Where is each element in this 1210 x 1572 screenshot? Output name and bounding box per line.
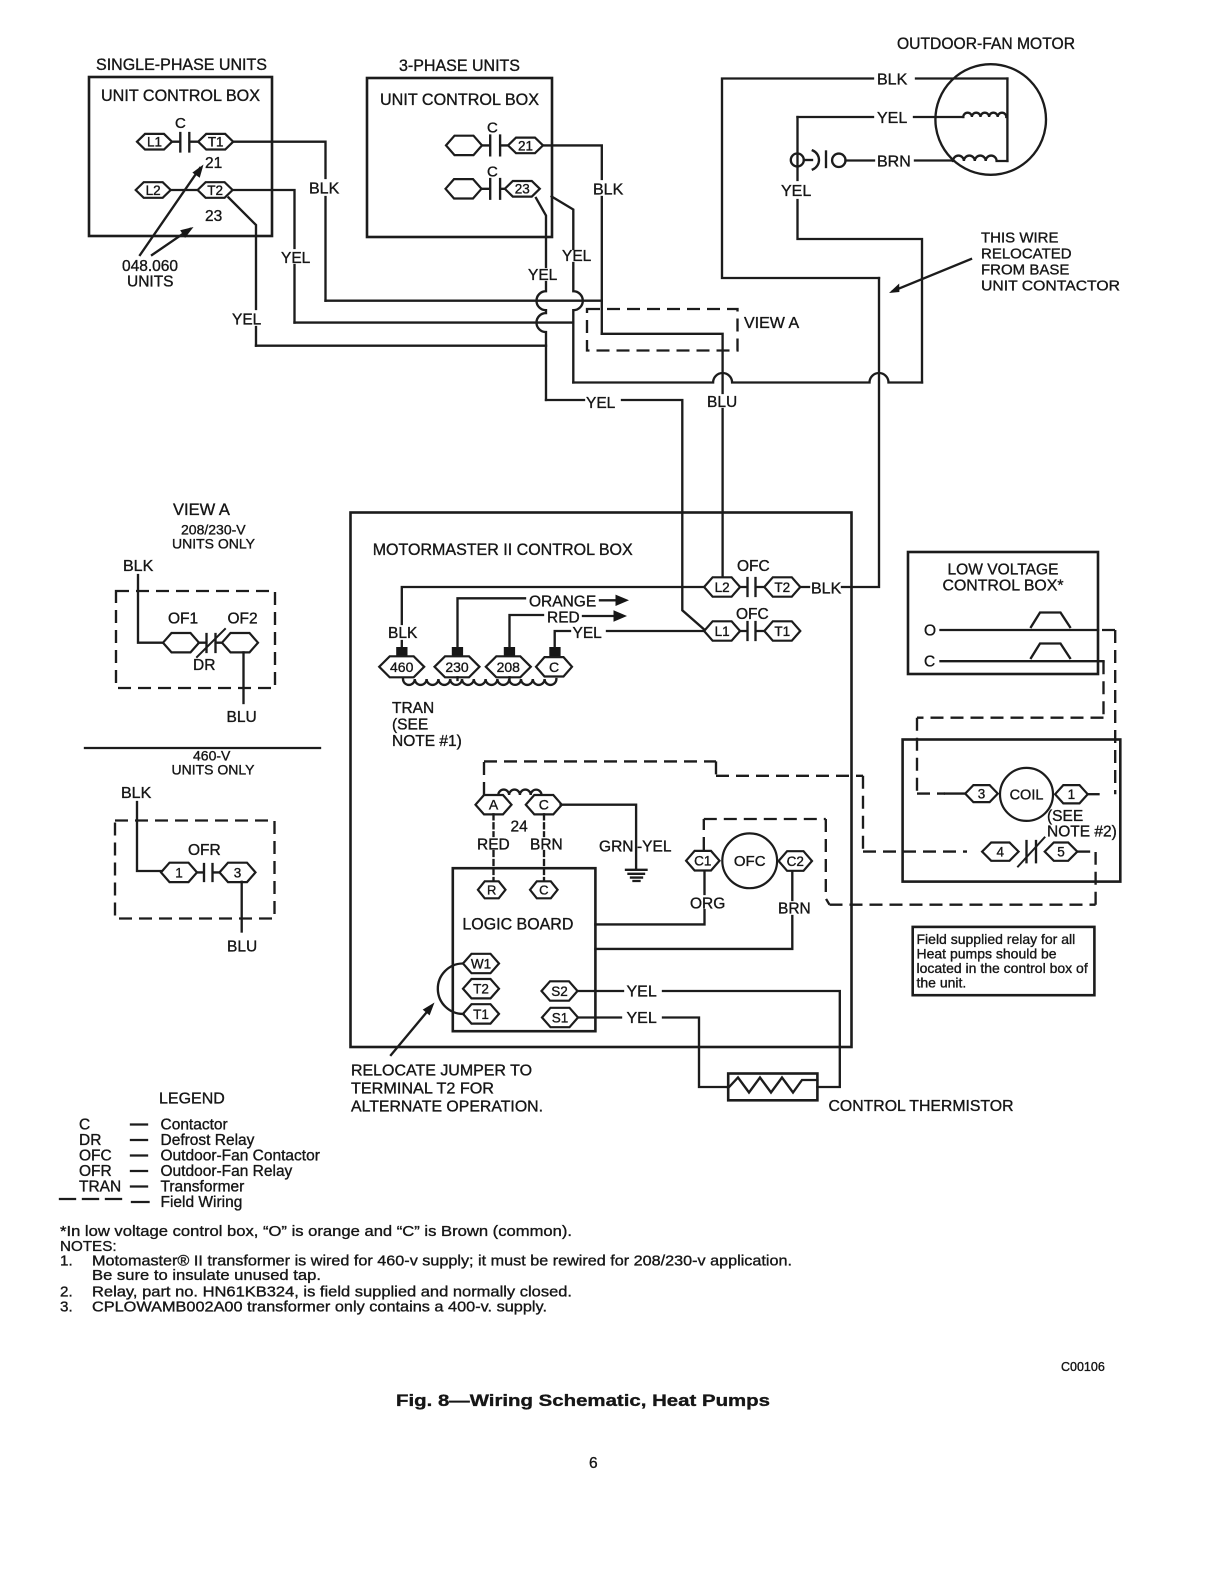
outdoor-fan motor circle: [935, 64, 1046, 175]
terminal L1 (OFC): [704, 621, 740, 640]
logic board box: [453, 868, 596, 1031]
wire BLK relocated drop to OFC T2: [799, 278, 880, 587]
svg-text:ORANGE: ORANGE: [529, 594, 596, 611]
svg-text:Fig. 8—Wiring Schematic, Heat: Fig. 8—Wiring Schematic, Heat Pumps: [396, 1391, 770, 1410]
terminal C2 (OFC coil): [779, 851, 812, 871]
jumper W1 to T1: [438, 964, 464, 1014]
wire RED A to R: [492, 814, 494, 881]
this wire relocated note: [981, 230, 1120, 295]
svg-text:6: 6: [589, 1455, 598, 1472]
field supplied relay box: [903, 740, 1121, 882]
wire ORG C1 to logic board: [595, 870, 704, 925]
svg-text:C1: C1: [694, 854, 711, 869]
svg-text:LOGIC BOARD: LOGIC BOARD: [462, 916, 573, 934]
svg-text:(SEE: (SEE: [392, 717, 428, 734]
terminal C (24v): [526, 795, 562, 814]
wire stub from terminal 5: [1077, 850, 1089, 852]
svg-text:BLK: BLK: [811, 581, 842, 598]
transformer TRAN primary winding: [403, 679, 556, 685]
blank terminal row2: [446, 179, 482, 198]
svg-text:T1: T1: [774, 624, 790, 639]
svg-text:OFC: OFC: [736, 606, 769, 623]
low voltage control box: [908, 552, 1098, 674]
wire BLU drop from 3-phase BLK riser to motormaster L2: [602, 334, 723, 578]
motormaster II control box: [351, 513, 852, 1048]
wire BLK to motor: [722, 79, 1007, 279]
svg-text:*In low voltage control box, “: *In low voltage control box, “O” is oran…: [60, 1223, 572, 1240]
terminal T1: [198, 134, 233, 150]
svg-text:ALTERNATE OPERATION.: ALTERNATE OPERATION.: [351, 1099, 543, 1116]
wire stub to terminal 3: [945, 792, 965, 794]
svg-text:RED: RED: [477, 837, 510, 854]
wire H1 BLK interconnect: [326, 300, 602, 302]
svg-text:UNIT CONTACTOR: UNIT CONTACTOR: [981, 278, 1120, 295]
RED arrow: [583, 610, 627, 621]
svg-text:C: C: [924, 654, 935, 671]
wire YEL from plug down to H4: [798, 117, 923, 383]
OFC contacts row2: [740, 622, 764, 640]
GRN-YEL label: [599, 839, 672, 856]
svg-text:VIEW A: VIEW A: [173, 501, 230, 519]
svg-text:GRN: GRN: [599, 839, 633, 856]
svg-text:OUTDOOR-FAN MOTOR: OUTDOOR-FAN MOTOR: [897, 35, 1075, 53]
terminal 208: [486, 656, 531, 677]
wire BLK transformer 460 tap to L2: [402, 587, 706, 648]
svg-text:L1: L1: [715, 624, 730, 639]
svg-text:YEL: YEL: [562, 248, 592, 265]
terminal W1: [463, 954, 499, 973]
svg-text:21: 21: [518, 138, 533, 153]
TRAN note: [392, 700, 462, 750]
svg-text:C: C: [487, 120, 498, 137]
svg-text:the unit.: the unit.: [917, 975, 967, 991]
terminal 1 (OFR): [161, 863, 197, 882]
svg-text:UNITS ONLY: UNITS ONLY: [172, 762, 256, 778]
svg-text:C00106: C00106: [1061, 1360, 1105, 1374]
svg-text:T1: T1: [473, 1007, 489, 1022]
terminal C (transformer): [536, 657, 572, 676]
low voltage control box label: [943, 562, 1064, 595]
svg-text:Field Wiring: Field Wiring: [161, 1194, 243, 1211]
svg-text:UNIT CONTROL BOX: UNIT CONTROL BOX: [380, 91, 539, 109]
svg-text:BLK: BLK: [309, 181, 340, 198]
svg-text:SINGLE-PHASE UNITS: SINGLE-PHASE UNITS: [96, 56, 267, 74]
svg-text:Defrost Relay: Defrost Relay: [161, 1132, 255, 1149]
svg-text:NOTE #1): NOTE #1): [392, 733, 462, 750]
svg-text:CONTROL BOX*: CONTROL BOX*: [943, 578, 1064, 595]
svg-text:L2: L2: [715, 580, 730, 595]
terminal T1 (logic board): [463, 1004, 499, 1023]
relay COIL: [1000, 768, 1053, 821]
svg-text:FROM BASE: FROM BASE: [981, 262, 1069, 279]
svg-text:OFC: OFC: [734, 853, 766, 870]
svg-text:3.: 3.: [60, 1299, 73, 1316]
defrost relay DR contacts (normally closed): [197, 629, 225, 657]
svg-text:TERMINAL T2 FOR: TERMINAL T2 FOR: [351, 1081, 494, 1098]
footnote and notes: [60, 1223, 792, 1316]
motor internal wire: [1006, 79, 1008, 162]
terminal A (24v): [476, 795, 512, 814]
svg-text:BLU: BLU: [227, 709, 257, 726]
svg-text:RELOCATED: RELOCATED: [981, 246, 1072, 263]
svg-text:BLU: BLU: [707, 394, 737, 411]
field wiring dashed from A terminal to relay contact 4: [484, 761, 967, 851]
callout arrow to 21: [140, 162, 207, 255]
terminal 230: [435, 656, 480, 677]
section divider: [85, 747, 320, 749]
field wiring sample: [60, 1198, 124, 1200]
svg-text:COIL: COIL: [1010, 788, 1044, 804]
svg-text:048.060: 048.060: [122, 258, 178, 275]
terminal S1: [542, 1008, 578, 1027]
terminal 460: [379, 656, 424, 677]
svg-text:S1: S1: [552, 1010, 569, 1025]
svg-text:CONTROL THERMISTOR: CONTROL THERMISTOR: [829, 1098, 1014, 1115]
svg-text:C: C: [539, 797, 549, 813]
svg-text:THIS WIRE: THIS WIRE: [981, 230, 1059, 247]
terminal OF2: [222, 633, 258, 652]
svg-text:BLK: BLK: [877, 72, 908, 89]
svg-text:RED: RED: [547, 610, 580, 627]
wire stub from terminal 1: [1088, 793, 1099, 795]
svg-text:TRAN: TRAN: [79, 1179, 121, 1196]
svg-text:BLK: BLK: [123, 558, 154, 575]
svg-text:(SEE: (SEE: [1047, 808, 1083, 825]
OFC contacts row1: [740, 578, 764, 596]
svg-text:4: 4: [997, 845, 1005, 860]
wire L2 to T2: [171, 189, 198, 191]
field wiring dashed to relay contact 5: [830, 852, 1096, 905]
svg-text:1.: 1.: [60, 1253, 73, 1270]
svg-text:YEL: YEL: [627, 1010, 657, 1027]
terminal T2 (OFC): [764, 577, 800, 596]
svg-text:UNIT CONTROL BOX: UNIT CONTROL BOX: [101, 87, 260, 105]
svg-text:Outdoor-Fan Contactor: Outdoor-Fan Contactor: [161, 1148, 320, 1165]
motor main winding: [963, 113, 1006, 117]
svg-text:1: 1: [1068, 787, 1076, 802]
svg-text:UNITS: UNITS: [127, 274, 174, 291]
wire YEL from S2 to thermistor: [577, 991, 839, 1087]
terminal OF1: [163, 633, 199, 652]
wire ORANGE from 230 tap: [458, 598, 526, 680]
svg-text:BRN: BRN: [877, 154, 911, 171]
svg-text:24: 24: [511, 819, 529, 836]
svg-text:YEL: YEL: [281, 250, 311, 267]
svg-text:460: 460: [390, 659, 414, 675]
arrow to jumper: [391, 1000, 438, 1055]
svg-text:OFC: OFC: [79, 1148, 112, 1165]
wire RED from 208 tap: [510, 615, 544, 680]
svg-text:L2: L2: [146, 183, 161, 198]
wire BRN C2 to logic board: [595, 871, 792, 949]
svg-text:VIEW A: VIEW A: [744, 315, 799, 332]
wire GRN-YEL from C to ground: [561, 805, 637, 869]
terminal 21 (3-phase): [508, 138, 543, 154]
C plug symbol: [1031, 644, 1070, 659]
svg-text:UNITS ONLY: UNITS ONLY: [172, 536, 256, 552]
OFR contacts: [197, 864, 220, 881]
svg-text:A: A: [489, 797, 499, 813]
legend entries: [79, 1117, 320, 1212]
svg-text:R: R: [487, 883, 496, 898]
svg-text:23: 23: [205, 208, 222, 225]
svg-text:T2: T2: [774, 580, 790, 595]
svg-text:C: C: [487, 164, 498, 181]
contactor C contacts row1: [482, 136, 508, 156]
svg-text:3: 3: [978, 787, 986, 802]
svg-text:YEL: YEL: [877, 110, 907, 127]
terminal 23 (3-phase): [505, 181, 540, 197]
ground symbol: [626, 870, 647, 881]
terminal T1 (OFC): [764, 621, 800, 640]
wire YEL from S1 to thermistor: [579, 1018, 729, 1088]
wire BLK from 3-phase 21: [544, 145, 602, 333]
terminal L2 (OFC): [704, 577, 740, 596]
terminal L1: [137, 134, 172, 150]
svg-text:3-PHASE UNITS: 3-PHASE UNITS: [399, 57, 520, 75]
svg-text:YEL: YEL: [627, 984, 657, 1001]
callout arrow to 23: [152, 223, 196, 255]
svg-text:C: C: [549, 659, 559, 675]
svg-text:L1: L1: [147, 135, 162, 150]
svg-text:YEL: YEL: [573, 625, 603, 642]
wire C: [941, 660, 1104, 662]
field wiring C to relay 3: [917, 661, 1104, 793]
wire YEL from 3-phase 23 bottom corner with hops over H1 H2: [536, 198, 546, 400]
terminal 1 (relay): [1055, 785, 1088, 803]
svg-text:RELOCATE JUMPER TO: RELOCATE JUMPER TO: [351, 1063, 532, 1080]
svg-text:LEGEND: LEGEND: [159, 1091, 225, 1108]
svg-text:230: 230: [445, 659, 469, 675]
wire YEL from C tap to L1: [555, 631, 706, 647]
terminal 3 (OFR): [220, 863, 256, 882]
svg-text:208: 208: [497, 659, 521, 675]
svg-text:BLK: BLK: [593, 182, 624, 199]
terminal R (logic board): [478, 881, 506, 898]
relocate jumper note: [351, 1063, 543, 1116]
svg-text:3: 3: [234, 865, 242, 880]
terminal T2 (logic board): [463, 979, 499, 998]
wire H2 YEL interconnect: [295, 321, 574, 323]
wire H4 YEL to motor plug with hops: [573, 373, 922, 383]
svg-text:OF1: OF1: [168, 611, 198, 628]
svg-text:T1: T1: [208, 135, 224, 150]
ORANGE arrow: [600, 595, 629, 606]
terminal 4 (relay): [982, 843, 1019, 861]
wire BLU from terminal 3: [241, 882, 243, 932]
motor plug connector: [791, 151, 846, 170]
svg-text:OFR: OFR: [188, 842, 221, 859]
svg-text:23: 23: [515, 182, 530, 197]
svg-text:Be sure to insulate unused tap: Be sure to insulate unused tap.: [92, 1267, 321, 1284]
blank terminal row1: [446, 136, 482, 155]
svg-text:5: 5: [1057, 845, 1065, 860]
wire BRN C to C: [543, 814, 545, 881]
svg-text:BLU: BLU: [227, 939, 257, 956]
svg-text:YEL: YEL: [528, 267, 558, 284]
svg-text:Outdoor-Fan Relay: Outdoor-Fan Relay: [161, 1163, 293, 1180]
svg-text:LOW VOLTAGE: LOW VOLTAGE: [948, 562, 1059, 579]
svg-text:BLK: BLK: [121, 785, 152, 802]
field supplied relay note box: [913, 927, 1095, 995]
svg-text:BRN: BRN: [530, 837, 563, 854]
control thermistor: [728, 1074, 817, 1101]
svg-text:T2: T2: [473, 982, 489, 997]
svg-text:CPLOWAMB002A00 transformer onl: CPLOWAMB002A00 transformer only contains…: [92, 1299, 547, 1316]
terminal T2: [198, 182, 233, 198]
svg-text:Contactor: Contactor: [161, 1117, 228, 1134]
wire YEL from 3-phase 23 tip with hop over H1: [552, 197, 583, 383]
svg-text:NOTE #2): NOTE #2): [1047, 824, 1117, 841]
terminal 3 (relay): [965, 785, 998, 802]
svg-text:BRN: BRN: [778, 901, 811, 918]
svg-text:C: C: [539, 883, 548, 898]
svg-text:O: O: [924, 623, 936, 640]
terminal C1 (OFC coil): [686, 851, 719, 871]
wire BLK into 460 detail: [137, 802, 161, 871]
O plug symbol: [1031, 613, 1070, 628]
svg-text:OFR: OFR: [79, 1163, 112, 1180]
svg-text:1: 1: [175, 865, 183, 880]
460 detail dashed box: [115, 821, 275, 919]
terminal L2: [136, 182, 171, 198]
svg-text:T2: T2: [207, 183, 223, 198]
svg-text:C2: C2: [787, 854, 804, 869]
svg-text:C: C: [79, 1117, 90, 1134]
wire YEL to motor winding: [798, 116, 964, 118]
svg-text:21: 21: [205, 155, 222, 172]
arrow to relocated wire: [887, 259, 971, 296]
wire YEL from single-phase T2: [234, 190, 295, 323]
transformer secondary winding: [498, 790, 541, 795]
svg-text:-YEL: -YEL: [637, 839, 672, 856]
svg-text:MOTORMASTER II CONTROL BOX: MOTORMASTER II CONTROL BOX: [373, 540, 633, 559]
svg-text:OF2: OF2: [228, 611, 258, 628]
svg-text:Transformer: Transformer: [161, 1179, 245, 1196]
terminal S2: [542, 981, 578, 1000]
transformer terminal posts: [396, 647, 560, 658]
single-phase unit control box: [89, 77, 272, 236]
field supplied relay note text: [917, 931, 1088, 991]
svg-text:DR: DR: [193, 657, 215, 674]
relay NC contacts 4-5: [1018, 838, 1045, 867]
svg-text:YEL: YEL: [781, 183, 811, 200]
view A dashed callout box: [587, 309, 738, 351]
view A detail dashed box: [116, 591, 275, 688]
wire YEL lower run to motormaster L1: [546, 400, 706, 631]
svg-text:OFC: OFC: [737, 558, 770, 575]
wire BLK from single-phase T1: [234, 142, 326, 301]
motor aux winding: [953, 156, 1007, 161]
svg-text:YEL: YEL: [586, 395, 616, 412]
OFC coil circle: [722, 833, 777, 888]
svg-text:S2: S2: [551, 984, 568, 999]
svg-text:BLK: BLK: [388, 625, 418, 642]
svg-text:ORG: ORG: [690, 896, 725, 913]
wire BLU from OF2: [242, 652, 244, 703]
wire BLK into view A detail: [138, 575, 164, 643]
svg-text:W1: W1: [471, 956, 491, 971]
wire H3 YEL interconnect: [256, 345, 546, 347]
legend dashes: [131, 1125, 149, 1203]
terminal 5 (relay): [1045, 843, 1078, 861]
svg-text:YEL: YEL: [232, 312, 262, 329]
wire BRN to motor winding: [846, 159, 954, 161]
wire O: [941, 629, 1099, 631]
see note 2 label: [1047, 808, 1117, 841]
contactor C contacts (L1-T1): [172, 133, 198, 152]
contactor C contacts row2: [482, 179, 508, 199]
OFC dashed enclosure: [704, 819, 830, 905]
3-phase unit control box: [367, 78, 552, 237]
svg-text:DR: DR: [79, 1132, 101, 1149]
terminal C (logic board): [530, 881, 558, 898]
svg-text:C: C: [175, 115, 186, 132]
field wiring O to relay 1: [1102, 630, 1115, 794]
wire YEL from T2 lower corner diagonal: [229, 198, 257, 346]
svg-text:TRAN: TRAN: [392, 700, 434, 717]
